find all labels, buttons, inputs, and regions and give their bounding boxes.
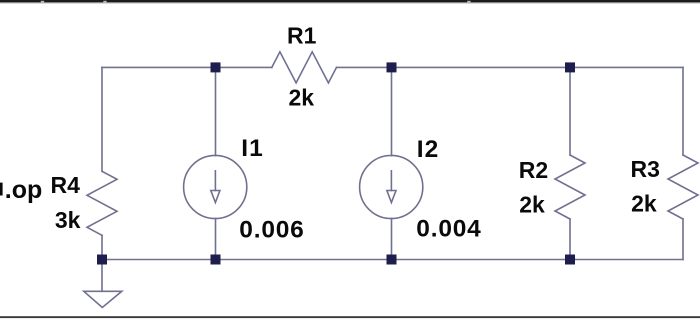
svg-text:R1: R1 bbox=[287, 23, 317, 49]
svg-text:I2: I2 bbox=[417, 136, 439, 163]
tab notch 2 bbox=[103, 1, 106, 4]
svg-text:2k: 2k bbox=[519, 192, 545, 218]
wire top rail left segment bbox=[102, 66, 272, 68]
svg-text:0.006: 0.006 bbox=[239, 216, 304, 243]
svg-text:R3: R3 bbox=[631, 156, 660, 182]
resistor R3 body bbox=[668, 155, 698, 219]
wire right vertical (R3 branch) bbox=[682, 67, 684, 155]
junction node top I2 bbox=[387, 62, 397, 72]
junction node bottom ground bbox=[97, 255, 107, 265]
wire I1 top lead bbox=[215, 67, 217, 155]
resistor R4 body bbox=[87, 171, 117, 235]
wire left vertical (node to R4) bbox=[101, 67, 103, 171]
wire R2 top lead bbox=[569, 67, 571, 155]
wire I2 top lead bbox=[391, 67, 393, 155]
tab notch 3 bbox=[467, 1, 470, 4]
partial glyph at left edge bbox=[0, 183, 3, 196]
resistor R2 body bbox=[555, 155, 585, 219]
current source I1 circle bbox=[184, 155, 247, 218]
current source I2 circle bbox=[360, 155, 423, 218]
top border bar bbox=[0, 0, 700, 2]
I1 arrowhead bbox=[211, 191, 220, 203]
I2 arrow shaft bbox=[390, 171, 392, 191]
wire ground lead bbox=[101, 260, 103, 292]
ground symbol bbox=[84, 291, 122, 307]
wire I2 bottom lead bbox=[391, 218, 393, 259]
junction node top R2 bbox=[565, 62, 575, 72]
svg-text:2k: 2k bbox=[289, 85, 315, 111]
bottom border bar bbox=[0, 316, 700, 318]
wire R2 bottom lead bbox=[569, 219, 571, 260]
junction node bottom I2 bbox=[387, 255, 397, 265]
wire top rail right segment bbox=[337, 66, 684, 68]
I1 arrow shaft bbox=[214, 171, 216, 191]
wire bottom rail bbox=[102, 259, 683, 261]
svg-text:.op: .op bbox=[5, 176, 43, 204]
I2 arrowhead bbox=[387, 191, 396, 203]
junction node top I1 bbox=[211, 62, 221, 72]
svg-text:I1: I1 bbox=[241, 135, 263, 162]
svg-text:2k: 2k bbox=[631, 191, 657, 217]
svg-text:R4: R4 bbox=[51, 172, 81, 198]
wire R3 bottom lead bbox=[682, 219, 684, 260]
junction node bottom R2 bbox=[565, 255, 575, 265]
wire R4 bottom lead bbox=[101, 235, 103, 259]
wire I1 bottom lead bbox=[215, 218, 217, 259]
tab notch 1 bbox=[41, 1, 44, 4]
svg-text:0.004: 0.004 bbox=[416, 216, 481, 243]
resistor R1 body bbox=[272, 52, 337, 83]
junction node bottom I1 bbox=[211, 255, 221, 265]
svg-text:3k: 3k bbox=[55, 207, 81, 233]
svg-text:R2: R2 bbox=[519, 157, 548, 183]
